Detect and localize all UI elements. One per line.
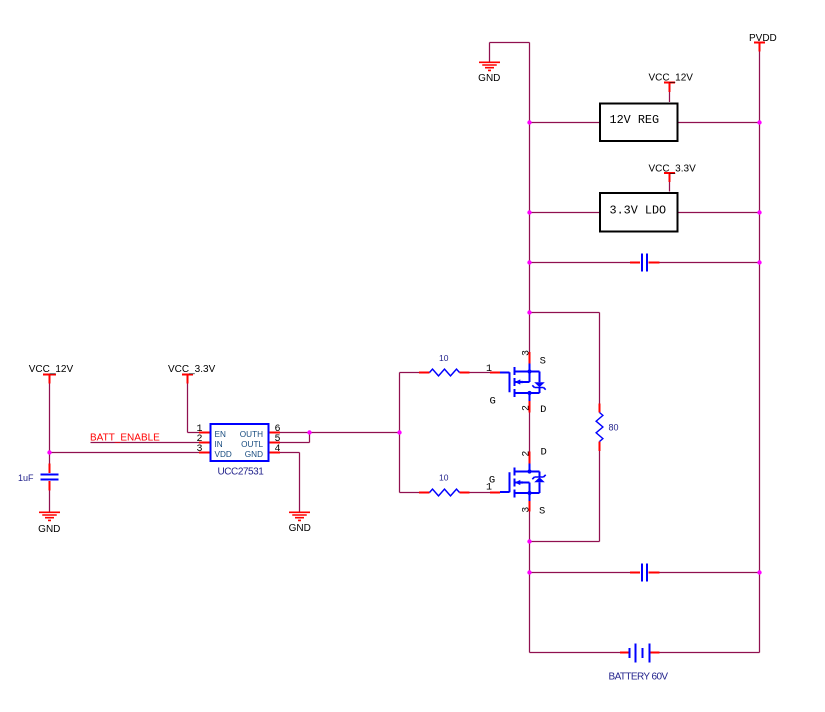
svg-text:1: 1 — [486, 483, 492, 494]
svg-text:3: 3 — [196, 444, 202, 455]
svg-text:BATT_ENABLE: BATT_ENABLE — [90, 433, 160, 444]
svg-text:1: 1 — [486, 364, 492, 375]
svg-text:VDD: VDD — [215, 450, 232, 459]
svg-text:G: G — [489, 395, 495, 407]
svg-text:VCC_12V: VCC_12V — [649, 73, 694, 84]
svg-text:4: 4 — [274, 444, 280, 455]
svg-text:GND: GND — [478, 73, 500, 84]
svg-text:3: 3 — [521, 350, 532, 356]
svg-text:UCC27531: UCC27531 — [218, 467, 265, 478]
svg-text:S: S — [539, 505, 545, 517]
svg-text:PVDD: PVDD — [749, 33, 777, 44]
svg-text:12V REG: 12V REG — [610, 113, 660, 127]
svg-text:80: 80 — [609, 423, 619, 433]
svg-text:3: 3 — [521, 507, 532, 513]
svg-text:OUTL: OUTL — [241, 440, 263, 449]
svg-text:3.3V LDO: 3.3V LDO — [610, 204, 667, 218]
svg-text:GND: GND — [38, 524, 60, 535]
svg-text:VCC_12V: VCC_12V — [29, 364, 74, 375]
svg-text:VCC_3.3V: VCC_3.3V — [168, 364, 216, 375]
svg-text:2: 2 — [521, 451, 532, 457]
svg-text:VCC_3.3V: VCC_3.3V — [649, 164, 697, 175]
svg-text:1uF: 1uF — [18, 473, 34, 483]
svg-text:EN: EN — [215, 430, 226, 439]
svg-text:GND: GND — [245, 450, 263, 459]
svg-text:D: D — [541, 447, 547, 459]
svg-text:10: 10 — [439, 353, 449, 363]
svg-text:BATTERY 60V: BATTERY 60V — [609, 672, 669, 683]
svg-text:S: S — [540, 356, 546, 368]
svg-text:OUTH: OUTH — [240, 430, 263, 439]
svg-text:GND: GND — [289, 523, 311, 534]
svg-text:2: 2 — [521, 405, 532, 411]
svg-text:D: D — [540, 404, 546, 416]
svg-text:IN: IN — [215, 440, 223, 449]
svg-text:10: 10 — [439, 473, 449, 483]
